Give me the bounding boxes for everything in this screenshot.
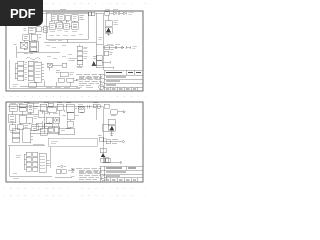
wire: sensor link [102, 61, 110, 63]
K5 marks [110, 52, 113, 54]
notes page2 left marks [71, 169, 75, 176]
rectifier BR1 fill [106, 28, 111, 33]
breaker CB11 [19, 108, 26, 111]
left pin stubs [15, 64, 18, 79]
terminal strip X1 [44, 26, 48, 32]
notes page1 line 3 [79, 77, 102, 79]
notes block page2 [71, 168, 102, 179]
title block page1 cell dividers [110, 70, 137, 91]
arrow to sheet [118, 111, 126, 113]
wire: low bus2 [55, 176, 72, 178]
wire: link from bus y44.5 [96, 44, 103, 46]
J10 pin marks [11, 107, 16, 109]
page 1 sheet [6, 11, 143, 91]
wire: badge-edge drop [43, 25, 45, 26]
X1 pin ticks [44, 28, 46, 30]
bank2 row4 a [26, 167, 31, 171]
title block page2 cell dividers [110, 166, 137, 182]
row boxes y127 a [48, 127, 53, 132]
notes page2 line 3 [79, 171, 102, 173]
label T2 side text [113, 21, 118, 25]
row2 box A marks [24, 36, 28, 38]
terminal TB12 [17, 125, 23, 130]
switch S10 [57, 165, 66, 167]
label rail text [99, 38, 103, 40]
wire: inner bus to boxes [48, 25, 72, 27]
wire: bus to filter [95, 12, 103, 14]
title page2 row1 text [106, 167, 136, 169]
MS2 circle b [57, 119, 59, 121]
junction box JB1 [32, 125, 39, 131]
breaker CB10 [19, 104, 26, 107]
wire: band links [12, 110, 70, 129]
enclosure panel outline [46, 12, 88, 39]
bank2 row2 b [33, 157, 38, 161]
end tick [126, 46, 131, 49]
side cell dividers page1 [100, 78, 104, 86]
converter U12 lower [108, 125, 115, 131]
title block page1 frame [104, 70, 143, 91]
VR3 label [84, 57, 88, 59]
label above control run [107, 43, 120, 45]
extra band marks a [34, 106, 77, 108]
enclosure inner bottom labels [49, 34, 83, 35]
notes page2 line 4 [79, 173, 100, 175]
connector row4 b [28, 76, 33, 80]
transformer T10 [28, 103, 34, 112]
starter MS2 [53, 117, 59, 123]
bank2 row3 b [33, 162, 38, 166]
duct label [51, 141, 58, 143]
connector row1 b [28, 61, 33, 65]
zone tick marks page1 [5, 10, 144, 92]
sheet zone ticks page1 [5, 10, 144, 92]
title block page2 text [106, 168, 136, 180]
notes page1 line 7 [79, 84, 91, 86]
regulator bank VR1 [77, 46, 83, 50]
wire: band bus y126 [32, 125, 60, 127]
capacitor C1 [89, 12, 92, 16]
wire: drop to T2 [108, 15, 110, 21]
PDF badge [0, 0, 43, 26]
T10 winding dots [29, 105, 32, 109]
contact marks [56, 71, 60, 73]
wire: page2 top bus [8, 106, 103, 108]
title page1 rows text [106, 77, 136, 89]
side cell dividers page2 [100, 170, 104, 178]
contact pair CP1 [62, 63, 67, 67]
rail x15 [14, 64, 16, 79]
row2 box B [31, 34, 37, 40]
row1 marks [24, 62, 27, 64]
transformer T1 [72, 22, 79, 29]
connector row3 b [28, 71, 33, 75]
row4 marks [24, 77, 27, 79]
wire: x103 rail [102, 107, 104, 163]
solenoid SV1 [106, 140, 110, 144]
extra band marks b [27, 113, 84, 115]
wire: mid bus page2 [8, 145, 45, 147]
capacitor C5 [118, 12, 119, 15]
wire: column drop [79, 45, 81, 67]
contactor KM1 [51, 15, 57, 21]
notes page1 footer marks [76, 87, 93, 89]
wire: bottom bus A [20, 85, 78, 87]
dash label [24, 53, 33, 55]
sensor B11 [104, 158, 109, 162]
title block page2 row lines [104, 170, 143, 178]
rectifier BR1 body [105, 27, 112, 33]
spare block SB2 [106, 158, 111, 162]
end lamp circle [122, 141, 124, 143]
contactor M10 [40, 104, 47, 111]
breaker Q1 marks [79, 15, 84, 19]
X-box diagonals [20, 42, 28, 48]
VR2 label [84, 52, 88, 54]
wire: BR1 stub [107, 33, 110, 36]
net label right2 [132, 46, 137, 48]
connector P10 rows [12, 129, 20, 133]
notes page2 line 1 [76, 167, 102, 169]
under-badge row1 box B [36, 27, 41, 32]
contact row CR1 [56, 170, 61, 174]
page 2 sheet [6, 102, 143, 182]
rail x96 [95, 13, 97, 44]
regulator VR3 [77, 56, 83, 60]
wire: page1 top feeder bus [43, 12, 88, 14]
relay K11 [66, 104, 74, 112]
overload OL1 [66, 15, 71, 20]
arrow out VBUS [120, 12, 126, 14]
wire: control run y47.5 [103, 47, 124, 49]
KM2 inner marks [60, 16, 63, 18]
row2 under labels [50, 30, 77, 31]
approval stamp circle [99, 85, 104, 90]
wire: cluster drops [24, 33, 34, 52]
K1 inner marks [51, 25, 54, 27]
relay K4 [105, 46, 109, 50]
node tick [126, 12, 128, 15]
KM3 inner marks [73, 16, 77, 18]
approval stamp circle page2 [101, 176, 106, 181]
title block page2 side cells [100, 166, 104, 182]
sensor B3 [97, 61, 102, 66]
bank2 row3 a [26, 162, 31, 166]
arrow out right [119, 47, 124, 49]
net name text right [129, 12, 134, 14]
rail x96 lower [95, 45, 97, 68]
wire: branch y162.5 [103, 161, 122, 164]
connector row2 a [18, 66, 24, 70]
IC U14 tall [39, 153, 46, 172]
U14 inner rows [40, 156, 45, 168]
inductor L10 [104, 104, 109, 108]
IC U1 tall [35, 62, 42, 82]
wire: x50 drop [49, 147, 51, 168]
label top band a [10, 102, 30, 105]
regulator VR2 [77, 51, 83, 55]
U1 right pins [42, 64, 44, 79]
sensor B2 [97, 55, 102, 60]
diode D10 [93, 104, 96, 108]
aux contact M1a [58, 78, 64, 82]
U13 pins [31, 131, 34, 140]
relay K8 [47, 63, 52, 67]
contact block CB12 [38, 111, 44, 118]
title block page1 text [106, 73, 141, 90]
notes page2 line 6 [79, 176, 99, 178]
label band2 [34, 116, 38, 118]
contactor KM2 [58, 15, 64, 21]
connector P10 row3 [12, 138, 20, 142]
sheet zone ticks page2 [5, 101, 144, 183]
VR4 marks below [77, 66, 83, 68]
IC U13 [23, 129, 31, 143]
wire: row interconnects [54, 20, 75, 23]
transducer TX1 [103, 124, 109, 131]
rail x16.5 [14, 45, 20, 58]
U1 inner rows [36, 65, 41, 77]
circle contact [115, 47, 117, 49]
arrow from M1b [74, 79, 79, 81]
tiny text block midright [69, 59, 77, 61]
label L1 [105, 9, 118, 11]
connector bank2 row1 a [26, 152, 31, 156]
row2 box A [23, 35, 30, 40]
wire: x10 drop low [9, 146, 11, 176]
title block page1 side cells [100, 74, 104, 91]
converter U12 upper [108, 119, 115, 125]
heater HR1 [58, 128, 74, 135]
sensor B10 fill [101, 153, 105, 157]
notes page1 line 1 [76, 73, 102, 75]
title block page2 frame [104, 166, 143, 182]
title block page1 row lines [104, 75, 143, 87]
row1 marks inside [29, 29, 33, 31]
wire: stub below U12 [110, 131, 113, 136]
arrow marks low [68, 169, 74, 171]
connector row4 a [18, 76, 24, 80]
contact block X-box [20, 42, 28, 48]
bank2 row2 a [26, 157, 31, 161]
diode D1 [110, 12, 117, 15]
interrow labels [49, 21, 69, 23]
wire: bottom bus page2 [10, 175, 52, 177]
notes page2 line 7 [79, 178, 97, 180]
rectifier BR10 top [111, 110, 117, 114]
capacitor C2 [92, 12, 95, 16]
cabinet sub-box lower [31, 47, 37, 51]
timer KT1 [60, 72, 68, 77]
MS1 coil circles [79, 107, 81, 109]
control cabinet tall box [29, 41, 38, 52]
wire: drops center [44, 67, 70, 86]
bus label marks [13, 173, 19, 178]
VR1 label [84, 47, 88, 49]
title page2 rows text [106, 172, 136, 180]
notes page1 line 4 [79, 79, 100, 81]
breaker CB13 [26, 117, 32, 123]
rail x24 [24, 154, 26, 169]
notes page2 line 5 [79, 175, 101, 177]
notes page2 line 2 [79, 169, 102, 171]
wire: enclosure bottom drop [66, 39, 68, 43]
contactor KM3 [72, 15, 78, 21]
wire: sub-panel bus [44, 42, 96, 44]
title page1 row1 text [106, 72, 141, 74]
label above bus [40, 130, 52, 132]
rail x10 lower [9, 60, 11, 88]
row3 marks [24, 72, 27, 74]
KM1 inner marks [52, 16, 55, 18]
connector P10 row2 [12, 133, 20, 137]
aux contact M1b [67, 78, 74, 82]
fuse F10 [48, 103, 53, 106]
notes page1 line 6 [79, 82, 99, 84]
contact row CR2 [62, 170, 67, 174]
TB12 marks [24, 126, 28, 128]
regulator VR4 [77, 61, 83, 65]
label text lowleft [13, 85, 18, 87]
wire: band bus y114.6 [8, 114, 38, 116]
relay K7 [29, 83, 37, 88]
diode D11 [97, 105, 100, 108]
left small marks [24, 28, 27, 30]
converter U12 fill [109, 126, 114, 131]
terminal TB10 [9, 115, 16, 123]
under-badge row1 box A [28, 27, 35, 33]
MS1 coil circle b [81, 107, 83, 109]
wire: branch y141.5 [103, 141, 122, 143]
row boxes y127 b [54, 127, 59, 132]
connector row1 a [18, 61, 24, 65]
K3 inner marks [65, 25, 68, 27]
relay K15 [44, 123, 52, 128]
row1 right marks [43, 27, 44, 29]
relay K13 [46, 117, 52, 123]
wire: x96 drop [95, 108, 97, 120]
label text top row [60, 10, 66, 11]
cursive note [26, 57, 40, 61]
spare block SB1 [101, 158, 106, 162]
sensor dark mark [92, 61, 97, 66]
left marks midlow [16, 155, 21, 157]
top band labels [18, 103, 98, 104]
pressure switch PS10 [99, 137, 104, 141]
capacitor C10 [88, 105, 93, 109]
K8 X mark [47, 63, 52, 67]
label net 24V [33, 143, 44, 145]
row2 right marks [38, 35, 41, 37]
notes page1 line 5 [79, 81, 101, 83]
U14 right pin marks [47, 160, 50, 165]
T1 core marks [73, 24, 77, 28]
PS10 tick marks [98, 135, 107, 138]
extra band marks c [10, 129, 70, 133]
IC U11 [67, 121, 73, 127]
bank2 row4 b [33, 167, 38, 171]
background texture dots [3, 4, 148, 196]
relay K10 [57, 104, 63, 110]
rail x44.8 [44, 117, 46, 134]
MS2 circles [54, 119, 56, 121]
relay K1 [49, 23, 55, 29]
connector bank2 row1 b [33, 152, 38, 156]
contact marks [110, 46, 114, 50]
sensor B1 marks [93, 56, 96, 58]
wire: run right y52 [20, 51, 60, 53]
connector row2 b [28, 66, 33, 70]
connector row3 a [18, 71, 24, 75]
wire: interconnect down-left [12, 110, 70, 116]
cabinet sub-box upper [31, 42, 37, 46]
connector J10 [9, 105, 17, 111]
relay K14 [36, 123, 42, 129]
IC U10 [67, 113, 74, 120]
filter FL10 [47, 107, 56, 112]
JB1 marks [33, 126, 37, 128]
relay K3 [64, 23, 70, 29]
sensor B10 [100, 148, 106, 152]
wire: band bus y133.6 [30, 133, 60, 135]
cable duct outline [48, 138, 97, 146]
CB12 label [45, 111, 49, 113]
relay K2 [57, 22, 63, 28]
terminal TB11 [10, 125, 16, 131]
inductor L1 [105, 12, 110, 15]
wire: sensor run [96, 66, 113, 68]
valve marks [112, 140, 118, 143]
relay K16 [40, 128, 47, 135]
relay K5 [104, 51, 109, 55]
zone tick marks page2 [5, 101, 144, 183]
TB10 pins [10, 117, 14, 122]
diode D12 [111, 115, 116, 117]
rail x103 [102, 13, 104, 70]
center labels [46, 46, 72, 58]
notes block page1 [76, 74, 102, 87]
KT1 label [69, 73, 74, 75]
label under enclosure [49, 40, 62, 42]
K2 inner marks [58, 24, 61, 26]
transformer T2 [105, 21, 112, 27]
motor starter MS1 [78, 106, 84, 112]
wire: K8 out [52, 64, 62, 66]
row2 marks [24, 67, 27, 69]
relay K12 [19, 115, 26, 123]
bottom text row [46, 87, 70, 89]
notes page1 line 2 [79, 75, 102, 77]
wire: bottom bus B [10, 88, 80, 90]
